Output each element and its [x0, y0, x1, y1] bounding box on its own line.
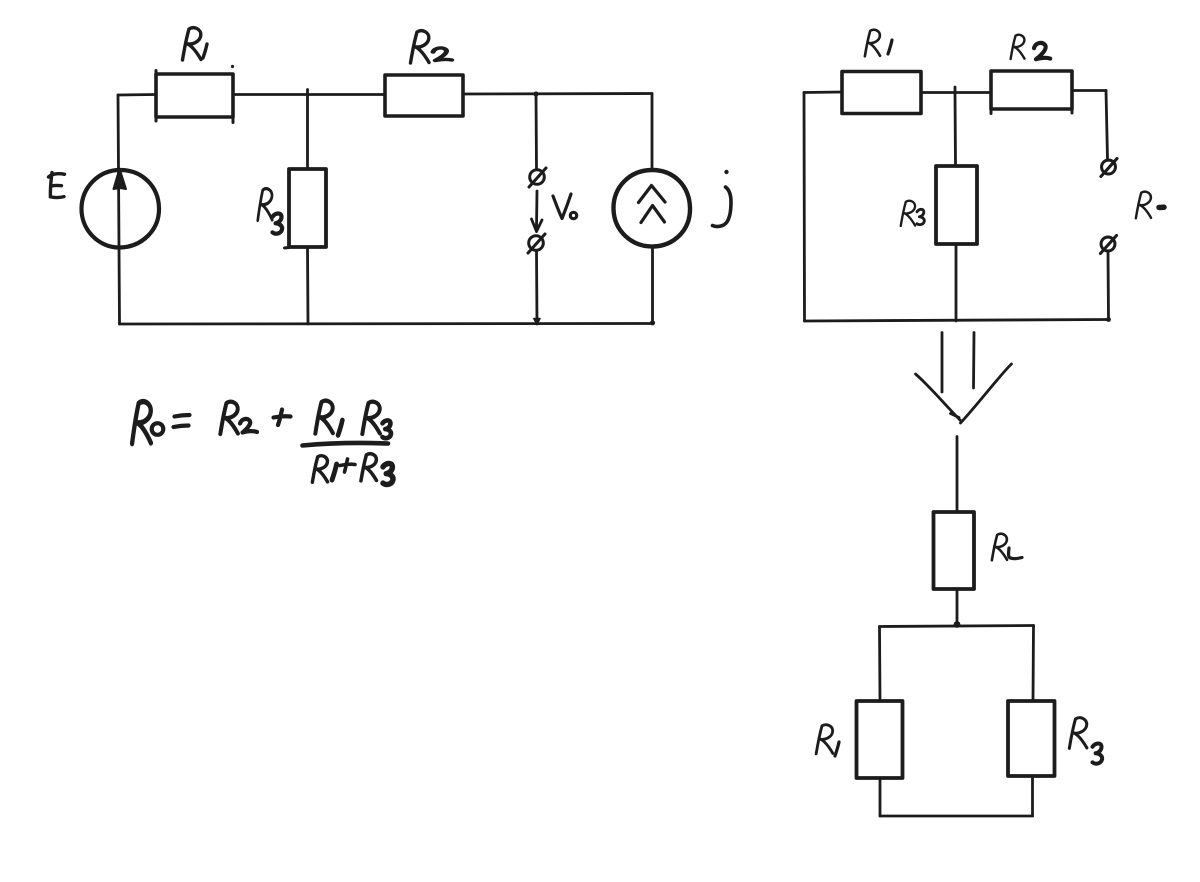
label R1 (bottom circuit) [816, 725, 839, 756]
voltage source E circle [81, 170, 159, 248]
resistor R3 (right circuit) [936, 166, 977, 244]
resistor R3 (left circuit) [289, 169, 326, 247]
formula numerator R1 R3 [315, 401, 333, 434]
resistor R1 (left circuit) [156, 74, 233, 117]
resistor R1 (right circuit) [842, 72, 921, 114]
resistor R3 (bottom circuit) [1008, 701, 1055, 776]
wire R1 to R2 (left circuit, node A junction) [233, 93, 385, 96]
wire R2 to junction node (bottom circuit) [956, 589, 959, 625]
formula R0 = R2 + R1R3/(R1+R3) [132, 401, 393, 485]
terminal lower (V0 output) [528, 234, 545, 253]
wire from arrow to R2 (bottom circuit) [956, 437, 959, 513]
label V0 [553, 194, 577, 219]
resistor R3 corner overshoot tick (left circuit) [285, 246, 290, 250]
wire R2 to right corner (left circuit, node B junction) [463, 92, 652, 95]
wire bottom horizontal (right circuit) [805, 320, 1109, 322]
equivalence arrow head [916, 364, 1012, 423]
label R2 (left circuit) [411, 31, 452, 63]
formula R2 term [220, 402, 238, 434]
junction tick node A (left circuit) [306, 90, 309, 96]
wire R1 to R2 (right circuit, node junction) [921, 91, 991, 94]
label R1 (right circuit) [865, 30, 892, 56]
wire top-left horizontal (right circuit) [804, 91, 842, 94]
junction dot node B (left circuit) [533, 91, 538, 96]
junction blob V0 branch at bottom wire (left circuit) [534, 319, 540, 325]
label R0 [1136, 192, 1164, 218]
wire R3 branch vertical top (left circuit) [306, 95, 309, 170]
terminal upper (R0 port) [1101, 158, 1117, 176]
junction tick node C (right circuit) [954, 87, 957, 93]
wire left vertical (left circuit) [118, 95, 120, 324]
wire V0 branch top (left circuit) [535, 94, 538, 169]
resistor R2 corner overshoot ticks (right circuit) [991, 109, 1072, 114]
stray dot above R1 corner (left circuit) [231, 65, 234, 68]
formula equals sign [174, 415, 190, 427]
wire right vertical lower (bottom circuit) [1031, 776, 1034, 816]
wire right vertical upper (bottom circuit) [1032, 626, 1035, 702]
wire R3 branch vertical top (right circuit) [954, 93, 957, 167]
wire bottom horizontal (left circuit) [120, 322, 653, 325]
current source j circle [613, 170, 690, 247]
wire top horizontal (bottom circuit) [880, 626, 1034, 627]
resistor R2 (left circuit) [385, 75, 463, 116]
formula plus sign [274, 410, 291, 426]
resistor R2 (right circuit) [991, 71, 1072, 109]
terminal upper (V0 output) [529, 168, 546, 187]
wire right vertical lower (right circuit) [1107, 252, 1110, 320]
voltage source E arrow [114, 169, 127, 190]
resistor R2 (bottom circuit) [934, 512, 975, 589]
label R3 (left circuit) [258, 189, 282, 234]
label R3 (right circuit) [901, 201, 925, 226]
wire R3 branch vertical bottom (left circuit) [306, 247, 309, 324]
label R2 (right circuit) [1011, 35, 1051, 59]
equivalence arrow double lines [942, 333, 974, 393]
wire left vertical (right circuit) [803, 93, 806, 322]
wire left vertical upper (bottom circuit) [878, 627, 881, 702]
terminal lower (R0 port) [1100, 235, 1116, 253]
formula fraction bar [303, 443, 389, 445]
junction dot bottom right corner (right circuit) [1106, 317, 1111, 322]
label R1 (left circuit) [183, 28, 208, 60]
current source j chevrons [639, 186, 666, 223]
resistor R1 (bottom circuit) [857, 701, 903, 778]
label R3 (bottom circuit) [1069, 718, 1102, 764]
wire right vertical upper (right circuit) [1106, 91, 1108, 160]
junction dot bottom right corner (left circuit) [650, 320, 655, 325]
wire R3 branch vertical bottom (right circuit) [955, 244, 958, 321]
resistor R1 corner overshoot ticks (left circuit) [156, 71, 233, 123]
wire bottom horizontal (bottom circuit) [880, 815, 1033, 818]
formula denominator R1 + R3 [312, 456, 327, 482]
label R2 (bottom circuit) [992, 534, 1022, 560]
label E [49, 173, 65, 198]
wire left vertical lower (bottom circuit) [879, 778, 882, 816]
wire current source bottom (left circuit) [651, 247, 654, 324]
wire V0 branch bottom (left circuit) [535, 251, 538, 324]
label j [713, 170, 732, 227]
wire top-left horizontal (left circuit) [118, 93, 156, 96]
formula R0 [132, 402, 151, 444]
junction node dot (bottom circuit) [954, 621, 961, 628]
wire current source top (left circuit) [651, 94, 654, 171]
arrow V0 (pointing down) [532, 191, 543, 232]
wire R2 to right corner (right circuit) [1072, 89, 1106, 92]
